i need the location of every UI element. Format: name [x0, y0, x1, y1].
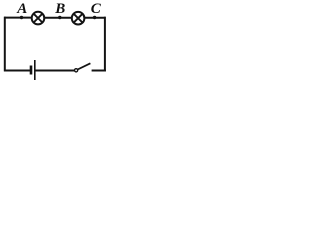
svg-text:A: A — [16, 1, 27, 17]
node C dot — [93, 16, 96, 19]
switch S pivot circle — [75, 69, 78, 72]
svg-text:C: C — [91, 1, 102, 17]
lamp L1 cross — [34, 14, 43, 23]
wire right vertical — [104, 17, 106, 72]
wire bottom-left segment to battery — [4, 70, 30, 72]
wire battery to switch pivot — [35, 70, 74, 72]
battery negative plate (short thick) — [30, 66, 33, 75]
lamp L2 cross — [74, 14, 83, 23]
node A dot — [20, 16, 23, 19]
wire bottom-right segment — [92, 70, 106, 72]
switch lever — [78, 63, 91, 69]
wire between lamps — [44, 17, 72, 19]
lamp L1 circle — [32, 12, 45, 25]
wire left vertical — [4, 17, 6, 72]
wire top-right segment — [84, 17, 105, 19]
lamp L2 circle — [72, 12, 85, 25]
wire top-left segment — [4, 17, 32, 19]
svg-text:B: B — [54, 1, 65, 17]
battery positive plate (long thin) — [34, 60, 36, 80]
node B dot — [58, 16, 61, 19]
